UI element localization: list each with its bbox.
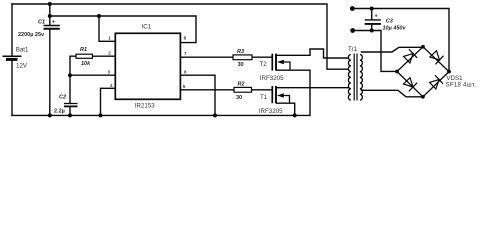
transistor Q2 : T1 MOSFET [272, 86, 289, 103]
svg-text:10µ 450v: 10µ 450v [383, 25, 407, 31]
wire T2 drain to primary top [277, 49, 349, 58]
svg-text:C3: C3 [386, 18, 393, 24]
wire R1 left lead and C2 column [70, 56, 76, 103]
svg-text:T2: T2 [260, 61, 268, 68]
svg-text:12V: 12V [16, 62, 28, 69]
node rail pin6 [213, 113, 217, 117]
diode D3 lower-left [403, 78, 417, 92]
svg-text:Tr1: Tr1 [348, 46, 358, 53]
svg-text:IR2153: IR2153 [135, 102, 156, 109]
wire T1 drain to primary bottom [277, 87, 349, 89]
wire T1 source to ground [277, 103, 295, 115]
svg-text:SF18 4шт.: SF18 4шт. [446, 82, 477, 89]
node bridge right [447, 70, 451, 74]
svg-text:T1: T1 [260, 94, 268, 101]
battery Bat1 [3, 56, 22, 59]
svg-text:R2: R2 [238, 81, 245, 87]
wire pin 7 to R3 [180, 56, 233, 58]
svg-text:2200µ 25v: 2200µ 25v [18, 32, 45, 38]
capacitor C3 [365, 20, 381, 24]
node rail T1 source [293, 113, 297, 117]
svg-text:30: 30 [236, 95, 242, 101]
wire pin 4 to ground [101, 88, 116, 115]
node bridge left [395, 70, 399, 74]
wire C2 bottom lead [69, 107, 71, 116]
svg-text:5: 5 [183, 84, 186, 89]
wire top +12V rail and primary center tap [12, 4, 348, 69]
svg-text:6: 6 [184, 69, 187, 74]
wire R2 to T1 gate [252, 89, 272, 91]
svg-text:8: 8 [184, 36, 187, 41]
svg-text:Bat1: Bat1 [16, 47, 29, 54]
node bridge top [421, 45, 425, 49]
wire bottom ground rail and T2 source [12, 70, 310, 115]
node C1 / +12 branch [48, 14, 52, 18]
diode D4 lower-right [430, 75, 444, 89]
svg-text:R1: R1 [80, 47, 87, 53]
svg-text:R3: R3 [237, 49, 244, 55]
node rail C1 [48, 113, 52, 117]
wire pin 3 to C2 node [70, 74, 115, 76]
resistor R3 [233, 55, 252, 60]
svg-text:C1: C1 [38, 19, 45, 25]
node C3 bottom [370, 29, 374, 33]
wire battery bottom lead [11, 60, 13, 116]
node output terminal A [350, 6, 355, 11]
svg-text:IRF3205: IRF3205 [260, 75, 284, 82]
svg-text:1: 1 [108, 36, 111, 41]
resistor R1 [76, 54, 92, 58]
wire C1 column upper [49, 4, 51, 25]
node bridge bottom [421, 95, 425, 99]
transistor Q1 : T2 MOSFET [272, 54, 290, 71]
wire output line A to bridge right corner [352, 9, 449, 72]
svg-text:10k: 10k [81, 61, 91, 67]
svg-text:2.2µ: 2.2µ [54, 108, 65, 114]
svg-text:7: 7 [184, 51, 187, 56]
wire C3 top lead [371, 9, 373, 20]
node pin3 / C2 [68, 73, 72, 77]
svg-text:3: 3 [108, 69, 111, 74]
svg-text:+: + [52, 20, 55, 26]
resistor R2 [234, 87, 252, 92]
wire +12 branch to pin 8 [50, 16, 196, 43]
capacitor C1 [44, 26, 60, 29]
op-amp U1 : IC1 IR2153 box [115, 33, 180, 99]
svg-text:IRF3205: IRF3205 [259, 108, 283, 115]
wire pin 5 to R2 [180, 89, 234, 91]
diode bridge VDS1 edges [397, 47, 449, 97]
svg-text:4: 4 [110, 83, 113, 88]
svg-text:IC1: IC1 [142, 24, 152, 31]
node rail pin4 [99, 113, 103, 117]
node rail C2 [68, 113, 72, 117]
wire R3 to T2 gate [252, 56, 272, 58]
wire pin 1 supply [99, 16, 115, 41]
wire pin 6 to ground [180, 75, 215, 115]
wire C1 column lower [49, 30, 51, 116]
capacitor C2 [64, 104, 78, 107]
wire battery top lead [11, 4, 13, 56]
wire output line B to bridge left corner [353, 31, 398, 72]
node pin1 column [97, 14, 101, 18]
svg-text:30: 30 [238, 62, 244, 68]
node C3 top [370, 7, 374, 11]
diode D2 upper-right [430, 51, 444, 65]
wire R1 right lead to pin 2 [92, 55, 115, 57]
node output terminal B [350, 28, 355, 33]
svg-text:C2: C2 [59, 95, 66, 101]
wire C3 bottom lead [371, 25, 373, 31]
svg-text:+: + [375, 13, 378, 19]
wire secondary top lead to bridge top [362, 47, 424, 52]
diode D1 upper-left [404, 49, 418, 63]
node top rail / C1 [48, 2, 52, 6]
wire secondary bottom lead to bridge bottom [362, 90, 423, 97]
transformer Tr1 [348, 54, 362, 101]
svg-text:2: 2 [108, 50, 111, 55]
